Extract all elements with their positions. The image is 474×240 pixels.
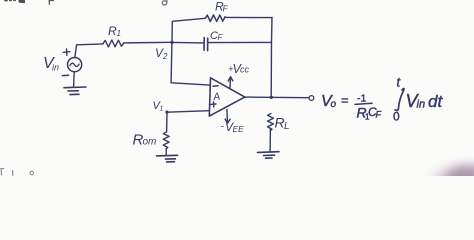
node V1 junction	[165, 111, 168, 114]
svg-text:cc: cc	[240, 65, 250, 75]
supply +Vcc arrow	[228, 77, 233, 88]
wire R1 to node V2	[124, 41, 172, 44]
smudge bottom-right	[420, 158, 474, 208]
svg-text:in: in	[52, 63, 59, 73]
source Vin	[68, 58, 82, 72]
svg-text:F: F	[376, 110, 382, 120]
op-amp minus pin	[213, 85, 218, 87]
label +Vcc	[228, 62, 250, 76]
svg-text:L: L	[284, 121, 290, 132]
wire source bottom to ground	[73, 72, 76, 88]
wire RL to ground	[269, 129, 271, 152]
wire op-amp output	[245, 96, 309, 99]
ground under Vin	[64, 87, 86, 95]
capacitor CF	[204, 38, 208, 51]
svg-text:in: in	[417, 99, 426, 111]
node V2 junction	[170, 41, 173, 44]
svg-text:o: o	[331, 99, 337, 110]
svg-text:dt: dt	[428, 92, 443, 111]
label RL	[275, 115, 290, 133]
polarity plus of Vin	[63, 49, 70, 55]
supply -VEE arrow	[225, 109, 230, 123]
svg-text:1: 1	[160, 106, 164, 113]
wire V2 to capacitor CF	[172, 41, 204, 44]
wire right vertical of feedback	[270, 18, 273, 98]
svg-text:A: A	[211, 90, 221, 103]
polarity minus of Vin	[62, 74, 68, 76]
wire V2 up to feedback top	[172, 18, 205, 42]
wire CF to right vertical	[208, 41, 272, 43]
svg-text:EE: EE	[233, 124, 245, 134]
label Vin	[43, 55, 59, 73]
wire noninverting input V1	[167, 111, 210, 113]
label R1	[108, 24, 121, 38]
label Rom	[133, 132, 157, 149]
label -VEE	[221, 120, 245, 134]
ground under Rom	[157, 155, 178, 162]
resistor RL	[268, 114, 274, 131]
wire source top to R1	[75, 44, 103, 58]
label V2	[155, 46, 168, 61]
resistor RF	[205, 15, 225, 22]
label RF	[215, 0, 229, 14]
op-amp A	[209, 78, 245, 116]
svg-text:0: 0	[393, 110, 400, 124]
wire V2 down to inverting input	[171, 42, 210, 85]
wire Rom to ground	[165, 149, 167, 156]
svg-text:=: =	[341, 93, 349, 108]
svg-text:2: 2	[162, 52, 168, 61]
svg-text:F: F	[223, 4, 229, 14]
junction output node	[270, 96, 273, 99]
label CF	[210, 30, 224, 42]
op-amp plus pin	[211, 102, 216, 107]
svg-text:-1: -1	[357, 93, 366, 105]
resistor R1	[103, 40, 124, 47]
resistor Rom	[163, 132, 169, 149]
label V1	[153, 100, 164, 113]
wire V1 down to Rom	[166, 112, 168, 132]
svg-text:om: om	[143, 137, 157, 148]
ground under RL	[258, 152, 280, 159]
equation Vo = -1/(R1CF) integral	[321, 75, 443, 124]
wire RF to right vertical	[225, 16, 272, 18]
stray cut-off marks bottom edge	[0, 169, 34, 176]
stray cut-off marks top edge	[5, 0, 167, 5]
svg-text:1: 1	[117, 29, 121, 38]
output terminal Vo	[309, 96, 314, 101]
